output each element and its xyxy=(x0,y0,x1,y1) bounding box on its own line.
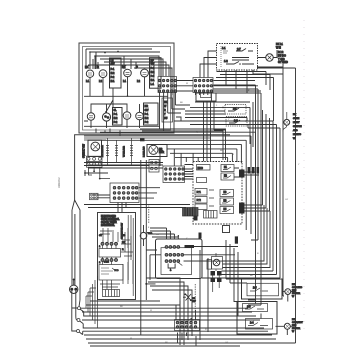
board relay small left xyxy=(197,178,207,183)
svg-text:OVEN: OVEN xyxy=(293,118,300,120)
wire power to terminals xyxy=(72,303,78,331)
dark bar right of lock xyxy=(235,236,238,243)
svg-text:LIGHTS: LIGHTS xyxy=(293,134,301,136)
connector P1 grid right xyxy=(193,78,213,93)
wire relay to fans xyxy=(276,292,296,335)
svg-text:3 4 5: 3 4 5 xyxy=(104,262,110,264)
surface element RF (circle) xyxy=(141,69,149,77)
wire row2 connections xyxy=(84,104,140,128)
board striped connector bottom 2 xyxy=(204,211,218,219)
connector P3 grid xyxy=(163,166,185,183)
text box right column in box A xyxy=(162,98,173,122)
wire pair vertical through mid xyxy=(141,160,147,335)
svg-text:P-2: P-2 xyxy=(111,76,115,79)
board connector dark right 2 xyxy=(239,203,245,214)
svg-text:BK: BK xyxy=(122,65,126,69)
junction node mid-left xyxy=(84,172,86,174)
svg-text:W RELAY2: W RELAY2 xyxy=(123,145,126,157)
relay contact bars xyxy=(232,58,249,61)
text wire labels scattered xyxy=(120,83,300,344)
bake relay outer box xyxy=(242,279,283,299)
svg-text:P-1: P-1 xyxy=(145,113,149,116)
svg-text:BAKE BROIL: BAKE BROIL xyxy=(101,224,115,227)
switch box row2 narrow xyxy=(113,108,123,126)
terminal block under buzzer xyxy=(149,160,159,173)
terminal L1 xyxy=(78,307,81,310)
power cord plug xyxy=(70,279,78,294)
board relay K1 xyxy=(221,165,234,172)
oven control section box xyxy=(98,213,136,300)
svg-text:GY: GY xyxy=(285,199,289,201)
svg-text:2-7: 2-7 xyxy=(237,47,241,51)
surface-burner section box outer xyxy=(79,43,174,133)
wire box A bottom exits xyxy=(96,129,120,137)
wire top-left nested runs xyxy=(86,49,160,69)
relay coil 1 xyxy=(106,144,109,158)
svg-text:2-1: 2-1 xyxy=(233,107,237,111)
svg-text:H-2: H-2 xyxy=(114,117,119,120)
thermostat terminals row 1 xyxy=(101,242,118,245)
wire lock feed corner fan xyxy=(150,228,178,237)
wire bus top corners xyxy=(214,85,281,128)
oven light circle right xyxy=(284,119,290,125)
svg-text:CLOCK TIMER: CLOCK TIMER xyxy=(101,222,117,224)
wire bottom bundle fan xyxy=(81,301,296,346)
svg-text:H-1: H-1 xyxy=(111,80,116,83)
terminal N xyxy=(77,319,80,322)
svg-text:MOTOR: MOTOR xyxy=(292,293,301,295)
wire top-right corner fan xyxy=(88,56,172,95)
svg-text:ELECTRONIC: ELECTRONIC xyxy=(101,216,116,218)
oven control bottom connector xyxy=(103,290,120,297)
wire long run y121 xyxy=(174,117,181,121)
svg-text:MOTOR: MOTOR xyxy=(292,328,301,330)
lock unit inner box xyxy=(161,248,192,275)
svg-text:P-1: P-1 xyxy=(114,113,118,116)
terminal L2 xyxy=(77,330,80,333)
wire below box B horizontals xyxy=(216,72,274,122)
oven light motor assembly xyxy=(88,140,102,157)
wire power drops xyxy=(72,291,76,308)
wire relay to motor xyxy=(258,50,278,58)
wire mid bundle left risers xyxy=(174,149,198,166)
switch box right tall xyxy=(150,58,162,88)
connector P4 grid center xyxy=(110,183,139,203)
svg-text:16022412: 16022412 xyxy=(58,177,61,188)
conv relay inner xyxy=(246,319,273,330)
wire lock unit exits xyxy=(146,232,238,280)
wire right lower nested corners xyxy=(226,240,261,319)
svg-text:P-2: P-2 xyxy=(151,75,155,78)
relay contact lower xyxy=(226,62,254,65)
control board dashed box xyxy=(193,162,242,225)
wire row mid horizontal xyxy=(84,95,168,97)
terminal row under motor 2 xyxy=(87,162,103,167)
wire between connectors xyxy=(177,81,261,92)
svg-text:OVEN LT SW: OVEN LT SW xyxy=(84,143,86,158)
svg-text:R RELAY3: R RELAY3 xyxy=(143,146,146,157)
buzzer circle mid xyxy=(147,145,167,157)
svg-text:H-1: H-1 xyxy=(151,79,156,82)
svg-text:LIGHT: LIGHT xyxy=(293,122,300,124)
board connector dark bottom-left xyxy=(194,210,198,221)
svg-text:R: R xyxy=(164,109,166,112)
dashed stub left of TCO xyxy=(148,204,150,224)
surface element row2 d (circle) xyxy=(136,112,144,120)
svg-text:R: R xyxy=(136,65,138,69)
wire bottom right edge xyxy=(88,290,296,343)
wire top bus from box B down right xyxy=(253,67,283,74)
svg-text:DR: DR xyxy=(192,298,196,300)
terminal row under motor 1 xyxy=(87,156,103,161)
wire probe area xyxy=(184,253,220,292)
wire board right connections to bus xyxy=(234,168,270,211)
wire left risers to bottom xyxy=(86,276,98,328)
svg-text:CONVECT: CONVECT xyxy=(292,322,303,324)
svg-text:P-1: P-1 xyxy=(111,68,115,71)
wire motor terminal drops xyxy=(89,167,111,178)
connector dark dots on bus xyxy=(248,167,251,174)
thermostat inner box 1 xyxy=(99,249,121,258)
wire coils top xyxy=(84,138,210,166)
surface element row2 c (circle) xyxy=(123,112,131,120)
wire oven inner verticals xyxy=(128,215,133,296)
bake relay box inner xyxy=(247,283,279,296)
wire bottom verticals center xyxy=(176,250,208,346)
board relay K3 xyxy=(220,190,234,197)
broil conv relay outer box xyxy=(237,302,277,335)
meat probe circle xyxy=(212,257,223,270)
surface element LF (circle) xyxy=(86,70,93,77)
lock motor cup xyxy=(168,264,175,270)
svg-text:1-2: 1-2 xyxy=(224,60,228,63)
board relay K2 xyxy=(221,173,234,180)
svg-text:RY2: RY2 xyxy=(197,200,202,202)
wire burner row1 drops xyxy=(84,52,160,126)
relay box top (double oven relay) xyxy=(217,44,258,71)
svg-text:GY: GY xyxy=(225,342,229,344)
svg-text:W N: W N xyxy=(276,46,281,49)
svg-text:RY1: RY1 xyxy=(197,192,202,194)
junction node top-left xyxy=(89,51,91,53)
probe jack small box xyxy=(207,259,212,269)
svg-text:H-2: H-2 xyxy=(145,117,150,120)
component below board xyxy=(223,226,230,233)
svg-text:BU: BU xyxy=(164,117,168,120)
middle section box xyxy=(75,135,230,200)
svg-text:BK RELAY1: BK RELAY1 xyxy=(101,144,104,157)
thermostat terminals row 2 xyxy=(101,259,118,262)
svg-text:P-2: P-2 xyxy=(145,121,149,124)
lock unit pin grid xyxy=(165,246,184,263)
surface element SL (circle row2) xyxy=(87,113,94,120)
wire oven control internals xyxy=(100,228,133,290)
svg-text:RR: RR xyxy=(145,105,149,108)
junction node lock bottom xyxy=(145,283,147,285)
svg-text:BK: BK xyxy=(85,65,89,69)
ignitor label box xyxy=(196,93,216,101)
junction dots box A xyxy=(104,52,106,54)
wire right verticals from top xyxy=(257,60,296,343)
svg-text:BU: BU xyxy=(156,234,159,236)
board striped connector bottom dark xyxy=(183,208,199,217)
svg-text:BK: BK xyxy=(164,101,168,104)
surface-burner section box inner xyxy=(83,47,171,131)
svg-text:OVEN CONTROL: OVEN CONTROL xyxy=(101,219,120,221)
connector G8 grid bottom xyxy=(175,320,200,331)
relay coil 3 xyxy=(130,144,133,158)
thermostat inner box 2 xyxy=(99,265,123,281)
connector mini grid left xyxy=(90,193,99,199)
wire feeds into board from left xyxy=(88,163,193,177)
switch box left xyxy=(110,58,122,88)
svg-text:AND: AND xyxy=(293,129,298,132)
wire nested corners below lock xyxy=(146,278,192,345)
wire P3 exits right xyxy=(160,150,193,179)
wire bus lower endpoints xyxy=(245,205,263,305)
lock dark corner bar xyxy=(199,233,202,239)
fuse circle inline xyxy=(140,232,147,239)
svg-text:H-2: H-2 xyxy=(111,72,116,75)
door switch xyxy=(183,284,196,312)
svg-text:R: R xyxy=(97,65,99,69)
wire bundle below box A xyxy=(140,129,226,160)
dark connector squares pair 1 xyxy=(211,271,216,276)
broil relay inner xyxy=(243,304,268,312)
junction cluster dark blob xyxy=(140,138,145,141)
svg-text:P-2: P-2 xyxy=(114,121,118,124)
relay coil 2 xyxy=(115,144,118,158)
lock switch arm xyxy=(178,263,182,266)
wire grid G2 exits downward xyxy=(196,93,212,102)
wire mid bundle staircase xyxy=(84,132,256,238)
wire right corner fan to probe area xyxy=(202,205,280,278)
wire power feed risers xyxy=(72,200,80,307)
svg-text:COOLING: COOLING xyxy=(292,287,302,289)
lock dark connector bar xyxy=(185,245,195,248)
wire box B feeds xyxy=(200,51,247,93)
svg-text:EOC: EOC xyxy=(198,167,203,170)
relay contact 2-7 xyxy=(236,49,253,52)
faint page gutter dots xyxy=(303,20,305,330)
wire right vertical bus xyxy=(250,85,280,305)
fan motor top right (circle) xyxy=(266,54,273,61)
board relay K4 xyxy=(220,198,234,205)
svg-text:TOD: TOD xyxy=(114,270,119,272)
svg-text:P-1: P-1 xyxy=(151,67,155,70)
board relay K5 xyxy=(220,207,234,214)
lock unit outer box xyxy=(156,239,203,279)
svg-text:H-2: H-2 xyxy=(151,71,156,74)
dark connector squares pair 2 xyxy=(211,278,216,283)
board inner cluster xyxy=(195,189,214,210)
relay small mid 1 xyxy=(225,105,246,115)
svg-text:2-3: 2-3 xyxy=(234,119,238,123)
wire grid G1 exits downward xyxy=(160,93,191,132)
connector P2 grid left xyxy=(158,77,177,93)
wire board top risers xyxy=(204,101,226,162)
switch box row2 right xyxy=(144,103,159,125)
board connector dark right 1 xyxy=(239,170,245,178)
surface element LR (circle) xyxy=(99,70,107,78)
wire mid horizontals under components xyxy=(84,163,163,213)
convection fan motor xyxy=(284,323,290,329)
svg-text:SWITCH: SWITCH xyxy=(293,126,302,128)
cooling fan motor xyxy=(285,289,291,295)
surface element SR dark (circle row2) xyxy=(102,113,110,121)
relay small mid 2 xyxy=(226,117,247,127)
wire P4 area xyxy=(84,170,190,208)
wire oven light xyxy=(283,112,287,131)
surface element RR (circle) xyxy=(124,69,132,77)
board label box 1 xyxy=(197,165,211,171)
wire mid-right horizontals xyxy=(181,102,255,125)
svg-text:DLB: DLB xyxy=(121,235,126,237)
